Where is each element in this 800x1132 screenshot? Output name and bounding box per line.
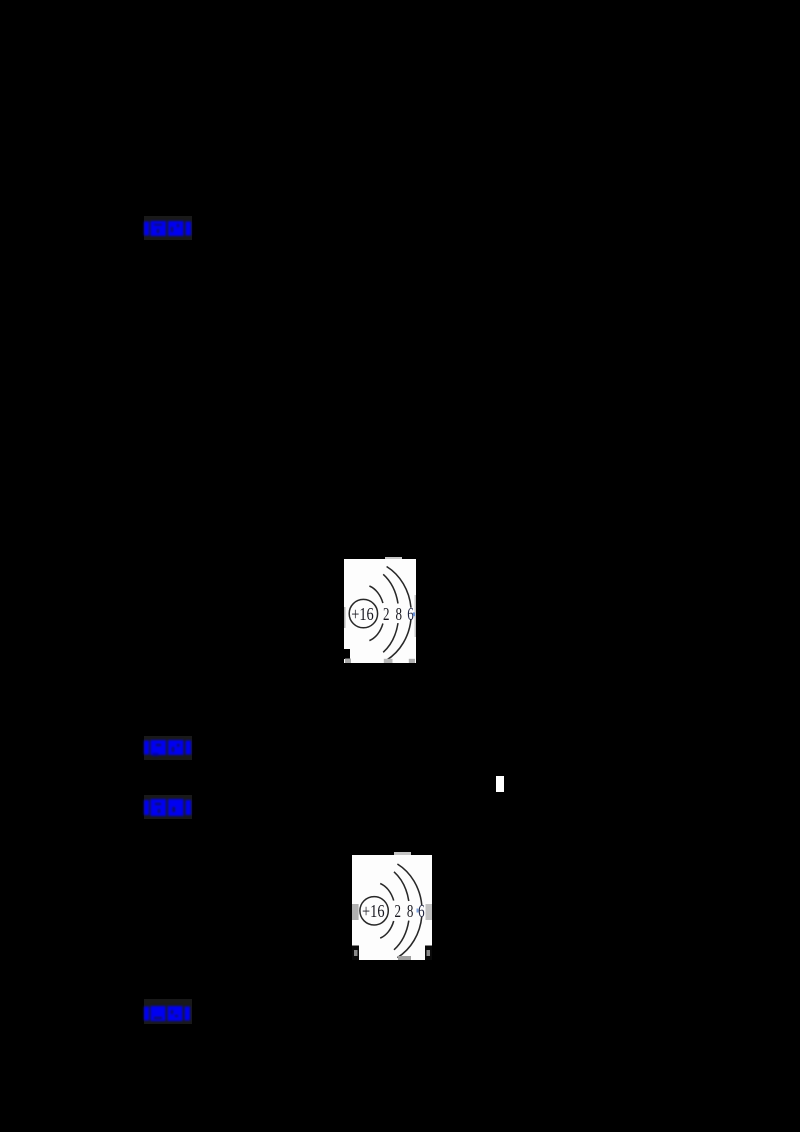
answer label 3 highlight box (144, 795, 193, 819)
shell arcs (380, 864, 422, 958)
answer label 4 blue text 【点评】 (144, 1006, 190, 1021)
right edge gray sliver (415, 595, 417, 637)
answer label 2 highlight box (144, 736, 192, 760)
nucleus circle (360, 897, 388, 925)
gray nub above diagram 1 top edge (385, 557, 402, 560)
bottom-middle gray patch (398, 956, 411, 960)
answer label 1 highlight box (144, 216, 192, 240)
answer label 1 blue text 【答案】 (144, 221, 191, 236)
svg-text:8: 8 (396, 604, 403, 624)
svg-text:+16: +16 (351, 604, 374, 624)
svg-text:+16: +16 (362, 901, 385, 921)
bottom-right corner mark (425, 946, 432, 961)
bottom-left gray patch (345, 659, 351, 664)
atom diagram image 1 (sulfur +16 / 2 8 6) (344, 559, 416, 663)
bottom-left corner mark (352, 946, 359, 961)
svg-text:2: 2 (383, 604, 390, 624)
shell arcs (369, 567, 411, 661)
svg-text:8: 8 (407, 901, 414, 921)
gray nub above diagram 2 top edge (394, 852, 411, 856)
svg-text:6: 6 (418, 901, 425, 921)
white image background (344, 559, 416, 663)
left edge gray sliver (344, 607, 346, 628)
left mid gray tab (352, 904, 359, 920)
bottom-left black notch (344, 649, 350, 659)
blue tint left of 6 (417, 909, 419, 913)
svg-text:6: 6 (407, 604, 414, 624)
blue tick right of 6 (413, 612, 415, 616)
answer label 2 blue text 【分析】 (144, 740, 191, 756)
answer label 3 blue text 【解答】 (144, 799, 191, 816)
white image background (352, 855, 432, 960)
small white speck (blank mark) (496, 776, 504, 792)
bottom-right gray patch (409, 659, 415, 663)
svg-text:2: 2 (395, 901, 402, 921)
nucleus circle (349, 599, 377, 627)
bottom-middle gray patch (384, 659, 393, 663)
answer label 4 highlight box (144, 999, 192, 1024)
right mid gray tab (426, 904, 433, 920)
atom diagram image 2 (sulfur +16 / 2 8 6) (352, 855, 432, 960)
